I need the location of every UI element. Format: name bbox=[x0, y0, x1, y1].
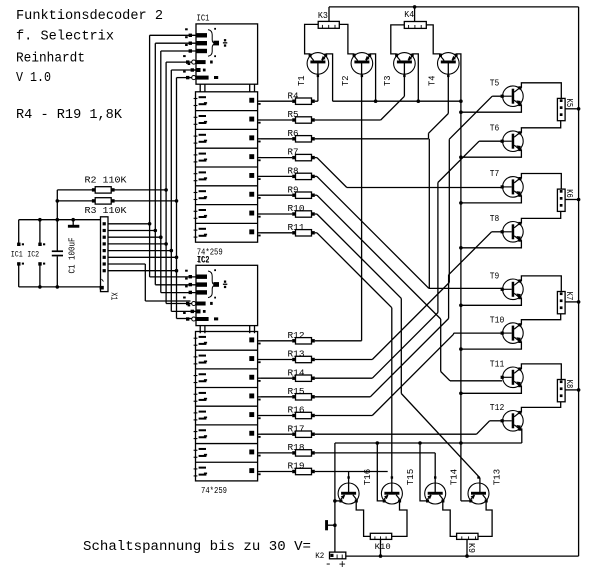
transistor T3 bbox=[394, 53, 416, 77]
wire R6 branch down to T9 line bbox=[428, 139, 430, 289]
svg-text:T10: T10 bbox=[490, 314, 505, 325]
IC2 latch cell 2 bbox=[194, 355, 261, 364]
wire T5 collector to K5 bbox=[521, 83, 561, 99]
IC1 latch cell 8 bbox=[194, 228, 261, 237]
wire T11 collector to K8 bbox=[521, 364, 561, 380]
net A0 bundle wire bbox=[150, 35, 196, 277]
wire T14 emitter drop bbox=[420, 443, 428, 501]
IC2 address pin A0 bbox=[185, 270, 207, 279]
svg-text:R5: R5 bbox=[288, 109, 299, 120]
IC2 control pin CLK bbox=[188, 304, 206, 313]
wire R9 to T11 base bbox=[315, 195, 503, 381]
svg-text:Funktionsdecoder 2: Funktionsdecoder 2 bbox=[16, 9, 163, 24]
antenna symbol near C1 bbox=[68, 218, 79, 228]
wire K4 right pin to T4 collector bbox=[426, 25, 440, 54]
svg-text:R17: R17 bbox=[288, 423, 305, 434]
connector K9 bbox=[457, 533, 478, 556]
wire +V top bus bbox=[329, 5, 579, 9]
svg-text:K7: K7 bbox=[564, 292, 574, 301]
wire T8 emitter to bus bbox=[459, 240, 521, 250]
wire T12 collector to K8 bbox=[521, 402, 560, 413]
IC2 latch cell 1 bbox=[194, 336, 261, 345]
resistor R12 bbox=[261, 338, 315, 344]
svg-text:T4: T4 bbox=[427, 75, 438, 86]
IC2 address pin A1 bbox=[185, 278, 207, 287]
wire X1 pin 6 bbox=[108, 255, 178, 259]
svg-text:IC1: IC1 bbox=[11, 250, 23, 260]
wire X1 pin 8 bbox=[108, 269, 178, 273]
wire T7 collector to K6 bbox=[521, 174, 561, 190]
connector X1 bbox=[100, 217, 108, 292]
wire K4 left pin to T3 collector bbox=[391, 25, 405, 54]
resistor R15 bbox=[261, 394, 315, 400]
test point symbol near K2 bbox=[325, 520, 335, 530]
connector K4 bbox=[404, 7, 426, 29]
wire T15 emitter drop bbox=[377, 443, 384, 501]
transistor T16 bbox=[338, 476, 359, 504]
wire T8 collector to K6 bbox=[521, 211, 560, 223]
wire T3 emitter down bbox=[412, 54, 420, 103]
resistor R6 bbox=[261, 136, 315, 142]
IC1 latch cell 6 bbox=[194, 190, 261, 199]
transistor T11 bbox=[501, 367, 524, 388]
svg-text:K9: K9 bbox=[466, 543, 476, 553]
wire common emitter rail top bbox=[333, 100, 461, 102]
transistor T7 bbox=[501, 177, 524, 198]
svg-text:R19: R19 bbox=[288, 461, 305, 472]
IC IC1 control section bbox=[196, 24, 258, 92]
svg-text:R2 110K: R2 110K bbox=[85, 175, 127, 186]
wire X1 pin 1 bbox=[108, 222, 151, 226]
svg-text:R12: R12 bbox=[288, 330, 305, 341]
svg-text:K2: K2 bbox=[315, 551, 324, 561]
net D bundle wire bbox=[166, 62, 192, 303]
wire X1 pin 3 bbox=[108, 235, 163, 239]
connector K7 bbox=[557, 292, 565, 314]
IC IC2 control section bbox=[196, 265, 258, 333]
wire common vertical to K2 bbox=[333, 443, 337, 552]
resistor R14 bbox=[261, 375, 315, 381]
transistor T5 bbox=[501, 86, 524, 107]
wire X1 pin 2 bbox=[108, 229, 157, 233]
transistor T13 bbox=[468, 476, 489, 504]
svg-text:R15: R15 bbox=[288, 386, 305, 397]
svg-text:K6: K6 bbox=[564, 189, 574, 198]
wire R14 to T6 base bbox=[315, 141, 503, 378]
resistor R17 bbox=[261, 431, 315, 437]
svg-text:T12: T12 bbox=[490, 402, 505, 413]
transistor T6 bbox=[501, 131, 524, 152]
net A1 bundle wire bbox=[155, 43, 196, 285]
svg-text:f. Selectrix: f. Selectrix bbox=[16, 30, 114, 45]
svg-text:T7: T7 bbox=[490, 168, 500, 179]
IC1 address pin A1 bbox=[185, 36, 207, 45]
svg-text:R8: R8 bbox=[288, 166, 299, 177]
svg-text:R11: R11 bbox=[288, 222, 305, 233]
resistor R7 bbox=[261, 154, 315, 160]
IC2 latch array box bbox=[196, 332, 258, 481]
wire T7 emitter to bus bbox=[459, 195, 521, 205]
wire R12 to T2 base bbox=[315, 63, 362, 341]
wire R13 to T5 base bbox=[315, 96, 503, 359]
svg-text:T14: T14 bbox=[448, 469, 459, 486]
connector K3 bbox=[318, 7, 339, 28]
svg-text:T9: T9 bbox=[490, 271, 500, 282]
svg-text:K5: K5 bbox=[564, 99, 574, 108]
IC1 latch array box bbox=[196, 92, 258, 242]
IC2 latch cell 5 bbox=[194, 411, 261, 420]
svg-text:R13: R13 bbox=[288, 349, 305, 360]
IC1 control pin G bbox=[183, 71, 218, 80]
wire R2 R3 left to rail bbox=[56, 190, 58, 220]
IC1 latch cell 1 bbox=[194, 96, 261, 105]
resistor R4 bbox=[261, 98, 315, 104]
svg-text:R10: R10 bbox=[288, 203, 305, 214]
wire K3 right pin to T2 collector bbox=[339, 24, 354, 54]
transistor T14 bbox=[425, 476, 446, 504]
svg-text:IC1: IC1 bbox=[197, 13, 210, 24]
svg-text:K4: K4 bbox=[404, 9, 414, 20]
svg-text:74*259: 74*259 bbox=[201, 486, 227, 496]
wire bottom rail bbox=[346, 554, 579, 558]
net G bundle wire bbox=[177, 78, 192, 319]
wire R17 to T12 base bbox=[315, 421, 503, 434]
IC2 latch cell 4 bbox=[194, 392, 261, 401]
wire top rail left block bbox=[19, 219, 101, 221]
wire T15 collector to K10 bbox=[392, 501, 407, 537]
svg-text:Reinhardt: Reinhardt bbox=[16, 52, 85, 67]
wire K8 middle pin to +V bus bbox=[565, 388, 580, 392]
svg-text:T3: T3 bbox=[382, 75, 393, 86]
svg-text:T8: T8 bbox=[490, 213, 500, 224]
IC2 address pin A2 bbox=[185, 285, 207, 294]
svg-text:IC2: IC2 bbox=[27, 250, 39, 260]
transistor T15 bbox=[381, 476, 402, 504]
wire K6 middle pin to +V bus bbox=[565, 198, 580, 202]
wire T4 emitter down to common bus bbox=[456, 54, 463, 103]
wire T12 emitter down to bottom rail bbox=[520, 429, 522, 443]
svg-text:V 1.0: V 1.0 bbox=[16, 71, 51, 86]
svg-text:R6: R6 bbox=[288, 128, 299, 139]
svg-text:K10: K10 bbox=[375, 542, 391, 552]
IC1 address pin A2 bbox=[185, 44, 207, 53]
wire T5 emitter to bus bbox=[459, 105, 521, 114]
transistor T4 bbox=[438, 53, 460, 77]
wire T14 collector to K9 bbox=[443, 501, 457, 537]
wire T10 emitter to bus bbox=[459, 341, 521, 351]
wire T9 emitter to bus bbox=[459, 298, 521, 308]
IC2 control pin D bbox=[183, 297, 213, 306]
IC2 latch cell 6 bbox=[194, 429, 261, 438]
svg-text:T2: T2 bbox=[340, 75, 351, 86]
wire X1 pin 5 bbox=[108, 249, 173, 253]
wire R8 to T9 base bbox=[315, 176, 503, 288]
IC1 brace mark bbox=[208, 28, 227, 57]
connector K2 bbox=[330, 552, 346, 559]
wire common bus vertical bbox=[460, 101, 462, 501]
resistor R5 bbox=[261, 117, 315, 123]
wire R19 to T16 base bbox=[315, 472, 388, 493]
wire R6 to T4 base bbox=[315, 61, 449, 139]
IC2 latch cell 7 bbox=[194, 448, 261, 457]
wire R7 to T7 base bbox=[315, 158, 503, 188]
IC2 power part bbox=[38, 218, 45, 289]
net A2 bundle wire bbox=[161, 51, 196, 293]
svg-text:T6: T6 bbox=[490, 123, 500, 134]
svg-text:R7: R7 bbox=[288, 147, 299, 158]
svg-text:R18: R18 bbox=[288, 442, 305, 453]
net C bundle wire bbox=[171, 70, 196, 311]
IC1 control pin D bbox=[183, 55, 213, 64]
wire T16 emitter to common bbox=[335, 500, 341, 502]
svg-text:Schaltspannung bis zu 30 V=: Schaltspannung bis zu 30 V= bbox=[83, 540, 311, 555]
svg-text:-: - bbox=[325, 557, 332, 570]
wire R18 to T14 base bbox=[315, 453, 436, 492]
svg-text:T1: T1 bbox=[296, 75, 307, 86]
transistor T1 bbox=[307, 53, 329, 77]
wire bottom emitter rail bbox=[335, 441, 522, 445]
wire R4 to T1 base bbox=[315, 61, 318, 102]
svg-text:T15: T15 bbox=[405, 469, 416, 486]
capacitor C1 bbox=[52, 218, 63, 289]
wire bottom rail left block bbox=[19, 286, 101, 288]
wire K3 left pin to T1 collector bbox=[305, 24, 319, 54]
wire X1 pin 4 bbox=[108, 242, 168, 246]
resistor R11 bbox=[261, 230, 315, 236]
svg-text:T11: T11 bbox=[490, 359, 505, 370]
wire T10 collector to K7 bbox=[521, 314, 560, 325]
resistor R2 bbox=[57, 187, 168, 193]
svg-text:R9: R9 bbox=[288, 184, 299, 195]
resistor R8 bbox=[261, 173, 315, 179]
IC1 latch cell 7 bbox=[194, 209, 261, 218]
connector K5 bbox=[557, 98, 565, 120]
wire T11 emitter to bus bbox=[459, 386, 521, 396]
wire T16 collector to K10 bbox=[356, 501, 370, 537]
svg-text:K8: K8 bbox=[564, 380, 574, 389]
resistor R19 bbox=[261, 468, 315, 474]
IC1 latch cell 5 bbox=[194, 171, 261, 180]
transistor T12 bbox=[501, 411, 524, 432]
wire R11 to T15 base bbox=[315, 233, 392, 492]
wire T2 emitter down bbox=[370, 54, 378, 103]
wire T6 emitter to bus bbox=[459, 150, 521, 160]
svg-text:K3: K3 bbox=[318, 10, 328, 21]
wire X1 pin 7 bbox=[108, 264, 191, 301]
resistor R9 bbox=[261, 192, 315, 198]
transistor T2 bbox=[351, 53, 373, 77]
IC1 latch cell 3 bbox=[194, 134, 261, 143]
IC2 brace mark bbox=[208, 269, 227, 298]
resistor R3 bbox=[56, 198, 179, 204]
wire T9 collector to K7 bbox=[521, 276, 561, 292]
svg-text:+: + bbox=[339, 558, 346, 570]
IC2 control pin G bbox=[183, 312, 218, 321]
svg-text:R16: R16 bbox=[288, 405, 305, 416]
svg-text:C1 100uF: C1 100uF bbox=[67, 237, 78, 273]
IC1 latch cell 4 bbox=[194, 153, 261, 162]
connector K8 bbox=[557, 380, 565, 402]
wire R10 to T13 base bbox=[315, 214, 480, 492]
IC2 latch cell 3 bbox=[194, 373, 261, 382]
connector K10 bbox=[370, 533, 391, 556]
svg-text:T13: T13 bbox=[492, 469, 503, 486]
resistor R16 bbox=[261, 412, 315, 418]
wire R16 to T10 base bbox=[315, 333, 503, 415]
svg-text:R4 - R19 1,8K: R4 - R19 1,8K bbox=[16, 108, 123, 123]
wire +V right bus vertical bbox=[578, 7, 580, 556]
IC1 control pin CLK bbox=[188, 63, 206, 72]
resistor R10 bbox=[261, 211, 315, 217]
svg-text:X1: X1 bbox=[109, 292, 120, 300]
IC2 latch cell 8 bbox=[194, 467, 261, 476]
svg-text:IC2: IC2 bbox=[198, 255, 210, 265]
resistor R18 bbox=[261, 450, 315, 456]
wire K5 middle pin to +V bus bbox=[565, 107, 580, 111]
svg-text:R14: R14 bbox=[288, 367, 305, 378]
svg-text:R4: R4 bbox=[288, 90, 299, 101]
transistor T10 bbox=[501, 323, 524, 344]
wire R15 to T8 base bbox=[315, 232, 503, 397]
svg-text:R3 110K: R3 110K bbox=[85, 205, 127, 216]
IC1 power part bbox=[17, 220, 24, 287]
resistor R13 bbox=[261, 356, 315, 362]
wire R5 to T3 base bbox=[315, 61, 405, 121]
wire T6 collector to K5 bbox=[521, 121, 560, 133]
wire T13 collector to K9 bbox=[478, 501, 492, 537]
svg-text:T5: T5 bbox=[490, 78, 500, 89]
IC1 latch cell 2 bbox=[194, 115, 261, 124]
IC1 address pin A0 bbox=[185, 28, 207, 37]
wire common bus to T13 emitter bbox=[461, 500, 471, 502]
connector K6 bbox=[557, 189, 565, 211]
wire T1 emitter down bbox=[326, 54, 333, 101]
transistor T8 bbox=[501, 222, 524, 243]
transistor T9 bbox=[501, 279, 524, 300]
wire K7 middle pin to +V bus bbox=[565, 300, 580, 304]
